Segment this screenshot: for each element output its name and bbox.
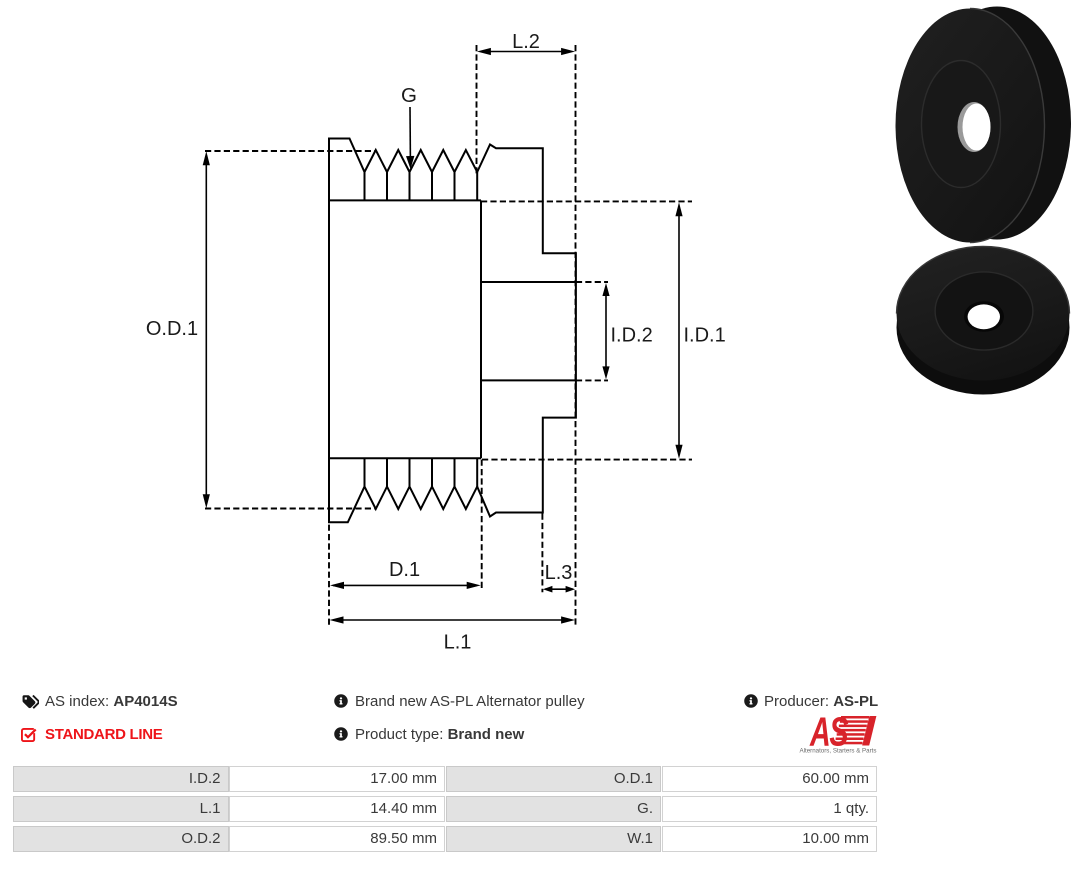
I.D.2 extension bottom (576, 379, 608, 381)
L.2 extension left (476, 45, 478, 174)
row1 value 60.00 mm (662, 766, 878, 792)
row2 label L.1 (13, 796, 229, 822)
G leader arrow (409, 107, 411, 160)
row3 value 10.00 mm (662, 826, 878, 852)
I.D.1 extension top (481, 200, 692, 202)
row2 value 14.40 mm (229, 796, 445, 822)
L.3 extension left (541, 514, 543, 593)
svg-text:L.2: L.2 (512, 31, 540, 53)
svg-text:D.1: D.1 (389, 559, 420, 581)
row3 label O.D.2 (13, 826, 229, 852)
top pulley photo (896, 7, 1072, 243)
D.1 extension right (481, 460, 483, 589)
bottom rim base line (329, 457, 481, 459)
right extension line L.2/L.3/L.1 (575, 45, 577, 627)
pulley body outline (329, 139, 576, 523)
svg-text:L.1: L.1 (444, 632, 472, 654)
top rim base line (329, 199, 481, 201)
I.D.1 dimension arrow (678, 206, 680, 455)
O.D.1 extension top (205, 150, 376, 152)
svg-text:L.3: L.3 (545, 562, 573, 584)
bottom pulley photo (897, 246, 1070, 394)
I.D.2 extension top (576, 281, 608, 283)
technical drawing svg (0, 0, 760, 680)
row1 value 17.00 mm (229, 766, 445, 792)
row3 value 89.50 mm (229, 826, 445, 852)
info row 1 (45, 693, 178, 710)
svg-text:I.D.2: I.D.2 (611, 325, 653, 347)
info row 2 (45, 726, 163, 743)
info icon 1 (334, 694, 348, 708)
D.1 dimension arrow (333, 584, 477, 586)
svg-text:G: G (401, 84, 417, 107)
svg-text:Alternators, Starters & Parts: Alternators, Starters & Parts (799, 748, 876, 755)
svg-text:O.D.1: O.D.1 (146, 318, 198, 340)
AS-PL logo (793, 713, 880, 755)
O.D.1 dimension arrow (205, 155, 207, 504)
top groove slots (365, 172, 478, 200)
info icon producer (744, 694, 758, 708)
bottom groove slots (365, 458, 478, 486)
I.D.1 extension bottom (482, 459, 692, 461)
bore line top I.D.2 (481, 281, 576, 283)
L.1 dimension arrow (333, 619, 572, 621)
row2 label G. (446, 796, 662, 822)
O.D.1 extension bottom (205, 508, 376, 510)
L.3 dimension arrow (545, 588, 573, 590)
tag icon (21, 694, 39, 710)
row1 label I.D.2 (13, 766, 229, 792)
svg-text:I.D.1: I.D.1 (684, 325, 726, 347)
standard line check icon (21, 727, 37, 743)
row3 label W.1 (446, 826, 662, 852)
L.2 dimension arrow (481, 51, 571, 53)
I.D.2 dimension arrow (605, 287, 607, 376)
row2 value 1 qty. (662, 796, 878, 822)
bore line bottom I.D.2 (481, 379, 576, 381)
info icon 2 (334, 727, 348, 741)
body right edge (480, 200, 482, 458)
left extension line D.1/L.1 (328, 525, 330, 626)
product photos svg (870, 0, 1080, 410)
row1 label O.D.1 (446, 766, 662, 792)
